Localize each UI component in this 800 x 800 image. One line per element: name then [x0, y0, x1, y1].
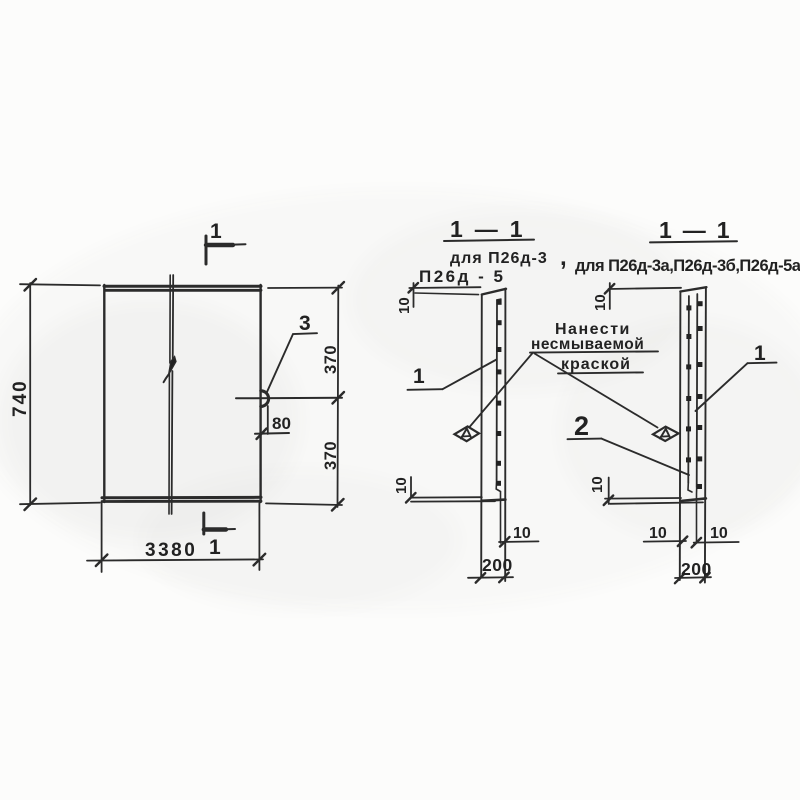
- panel bottom edge (double line): [102, 497, 261, 501]
- notch detail 3: [261, 391, 269, 407]
- svg-text:80: 80: [272, 414, 291, 433]
- s1 bottom-right dim 10: [499, 537, 539, 547]
- svg-text:10: 10: [592, 294, 609, 311]
- svg-text:П26д - 5: П26д - 5: [419, 267, 505, 286]
- dim line: [87, 559, 263, 560]
- section mark 1 top: [206, 236, 246, 264]
- s1 dim 200: [468, 573, 513, 583]
- scan tone: [0, 190, 800, 610]
- svg-text:для П26д-3а,П26д-3б,П26д-5а: для П26д-3а,П26д-3б,П26д-5а: [575, 257, 800, 275]
- s2 top ext lines: [605, 283, 681, 309]
- tick bottom: [25, 499, 37, 511]
- svg-text:370: 370: [322, 441, 340, 470]
- break line (double): [164, 275, 176, 514]
- svg-text:1—1: 1—1: [450, 216, 535, 242]
- s2 rebar dots: [686, 301, 703, 489]
- s1 top ext lines: [409, 283, 481, 307]
- leader note->diamond2: [535, 354, 658, 428]
- svg-text:10: 10: [710, 525, 728, 542]
- dim line: [337, 286, 340, 508]
- ext line bottom: [20, 503, 100, 505]
- s2 bottom-left dim 10: [604, 478, 614, 506]
- svg-text:10: 10: [396, 297, 413, 314]
- svg-text:краской: краской: [561, 356, 631, 373]
- section mark 1 bottom: [204, 513, 235, 534]
- svg-text:1: 1: [754, 342, 766, 365]
- label 1 leader (section 2): [696, 363, 777, 411]
- panel top edge (double line): [104, 286, 261, 290]
- svg-text:10: 10: [649, 525, 667, 542]
- ext line bottom: [266, 503, 342, 505]
- s2 bottom dims 10 10: [644, 537, 739, 548]
- svg-text:10: 10: [589, 476, 606, 493]
- s1 rebar dots: [496, 300, 502, 486]
- ext line right: [258, 503, 260, 570]
- tick left: [96, 555, 108, 567]
- svg-text:,: ,: [560, 244, 567, 271]
- label 1 leader (section 1): [408, 360, 497, 390]
- tick bottom: [332, 499, 344, 511]
- tick middle: [333, 392, 345, 404]
- dim line: [29, 283, 31, 505]
- svg-text:10: 10: [513, 525, 531, 542]
- svg-text:1: 1: [210, 220, 222, 243]
- panel left edge: [103, 285, 105, 502]
- tick top: [25, 279, 37, 291]
- s1 diamond mark: [455, 426, 480, 441]
- svg-text:200: 200: [681, 559, 712, 579]
- svg-text:несмываемой: несмываемой: [531, 336, 644, 353]
- svg-text:370: 370: [322, 345, 340, 374]
- ext line top: [268, 287, 342, 289]
- ext line left: [101, 503, 103, 572]
- note underlines: [530, 351, 658, 352]
- svg-text:1: 1: [413, 365, 425, 388]
- svg-text:3: 3: [299, 312, 311, 335]
- dim 740 left: [20, 279, 100, 510]
- svg-text:для П26д-3: для П26д-3: [450, 250, 548, 267]
- svg-text:1: 1: [209, 536, 221, 559]
- svg-text:3380: 3380: [145, 540, 197, 561]
- dim 80: [255, 406, 289, 439]
- header underline 1: [444, 240, 534, 241]
- svg-text:200: 200: [482, 555, 513, 575]
- s2 dim 200: [675, 573, 711, 583]
- s1 bottom edge lines: [410, 497, 505, 501]
- svg-text:740: 740: [10, 379, 31, 417]
- panel right edge: [259, 285, 261, 502]
- s2 bottom edge lines: [605, 498, 706, 504]
- leader for 3: [266, 333, 317, 393]
- s1 bottom-left dim 10: [406, 477, 416, 503]
- svg-text:10: 10: [393, 477, 410, 494]
- label 2 leader: [568, 439, 690, 475]
- svg-text:2: 2: [574, 411, 589, 441]
- svg-text:1—1: 1—1: [659, 217, 741, 243]
- ext line middle (notch level): [236, 397, 342, 400]
- tick right: [254, 554, 266, 566]
- tick top: [333, 282, 345, 294]
- right dim 370/370: [236, 282, 344, 511]
- header underline 2: [650, 241, 737, 242]
- s2 body: [680, 287, 707, 582]
- s1 body: [481, 289, 506, 581]
- leader note->diamond1: [470, 353, 534, 428]
- s2 diamond mark: [653, 427, 679, 441]
- dim 3380 bottom: [87, 503, 265, 572]
- ext line top: [20, 284, 100, 285]
